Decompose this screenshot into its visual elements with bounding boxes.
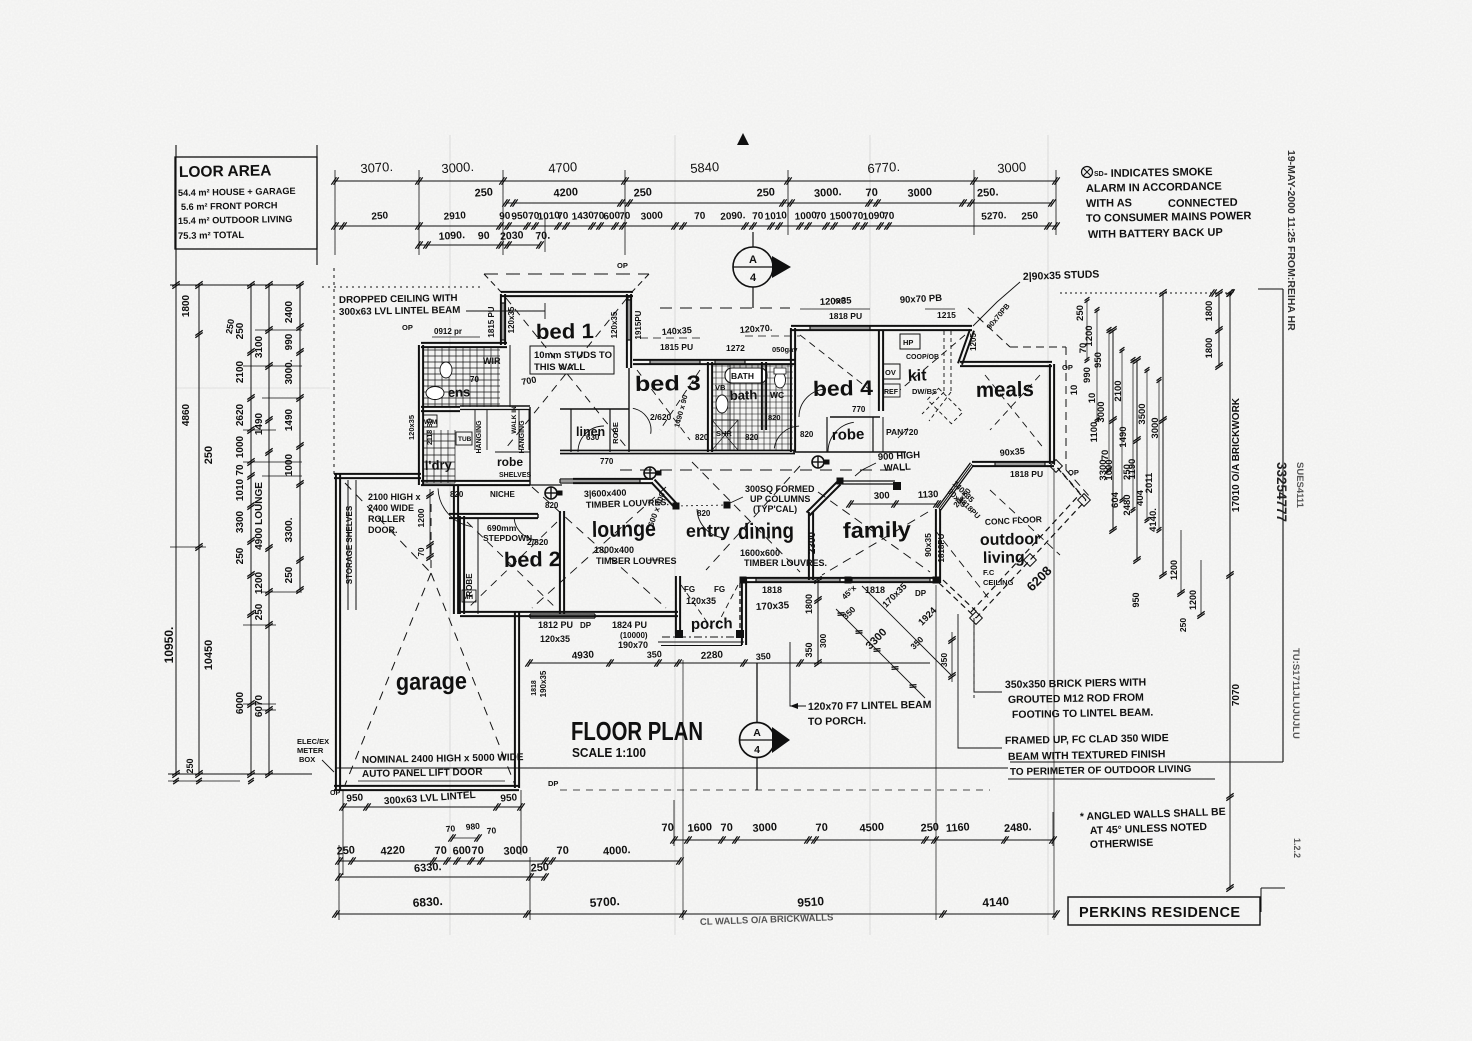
svg-text:WC: WC xyxy=(770,390,784,400)
pan closet xyxy=(872,417,874,452)
svg-text:1490: 1490 xyxy=(1118,426,1129,447)
svg-text:1200: 1200 xyxy=(416,508,426,527)
svg-text:PERKINS RESIDENCE: PERKINS RESIDENCE xyxy=(1079,905,1241,921)
north arrow xyxy=(737,133,749,145)
svg-text:meals: meals xyxy=(976,378,1034,402)
svg-text:600: 600 xyxy=(452,844,471,857)
svg-text:bed 4: bed 4 xyxy=(813,377,874,401)
svg-text:4900 LOUNGE: 4900 LOUNGE xyxy=(254,482,265,550)
svg-text:F.C: F.C xyxy=(983,568,995,577)
svg-text:5700.: 5700. xyxy=(589,894,620,910)
svg-text:54.4 m² HOUSE + GARAGE: 54.4 m² HOUSE + GARAGE xyxy=(178,186,296,198)
svg-text:1090.: 1090. xyxy=(438,229,465,243)
svg-text:250: 250 xyxy=(1178,618,1188,632)
svg-text:1200: 1200 xyxy=(1169,560,1179,580)
svg-text:OP: OP xyxy=(617,261,628,270)
svg-text:820: 820 xyxy=(800,430,814,439)
svg-text:BOX: BOX xyxy=(299,755,315,764)
garage bottom wall xyxy=(334,785,519,787)
svg-text:ROBE: ROBE xyxy=(465,573,474,597)
svg-text:UP COLUMNS: UP COLUMNS xyxy=(750,494,810,504)
laundry walls xyxy=(418,345,420,485)
svg-text:350: 350 xyxy=(804,642,814,657)
svg-text:70: 70 xyxy=(557,211,569,223)
svg-text:1915PU: 1915PU xyxy=(634,310,643,339)
svg-text:70: 70 xyxy=(815,822,828,835)
dining-family divider xyxy=(808,512,810,580)
garage left wall xyxy=(335,474,337,790)
svg-text:1500: 1500 xyxy=(829,210,852,223)
svg-text:300x63 LVL LINTEL BEAM: 300x63 LVL LINTEL BEAM xyxy=(339,305,461,318)
svg-text:70: 70 xyxy=(434,845,447,858)
bed4 walls xyxy=(790,328,792,452)
smoke alarm note xyxy=(1082,167,1093,178)
svg-text:1818 PU: 1818 PU xyxy=(829,311,862,321)
bottom dim row E xyxy=(336,913,1056,915)
svg-text:950: 950 xyxy=(500,792,518,804)
bed2 robe strip xyxy=(477,518,479,614)
svg-text:120x70 F7 LINTEL BEAM: 120x70 F7 LINTEL BEAM xyxy=(808,699,932,713)
svg-text:120x35: 120x35 xyxy=(540,634,570,644)
svg-text:70: 70 xyxy=(752,211,764,223)
svg-text:1160: 1160 xyxy=(945,821,970,835)
svg-text:250: 250 xyxy=(284,566,295,583)
svg-text:FG: FG xyxy=(714,585,725,594)
svg-text:dining: dining xyxy=(738,518,794,544)
svg-text:250: 250 xyxy=(185,758,195,773)
svg-text:2/620: 2/620 xyxy=(650,412,672,422)
svg-text:17010 O/A BRICKWORK: 17010 O/A BRICKWORK xyxy=(1231,397,1242,512)
ens walls xyxy=(421,342,507,344)
svg-text:4500: 4500 xyxy=(859,821,884,835)
bed4 door xyxy=(799,389,826,417)
svg-text:bed 1: bed 1 xyxy=(536,320,595,344)
svg-text:4700: 4700 xyxy=(548,159,578,176)
shower xyxy=(712,420,738,450)
svg-text:70: 70 xyxy=(619,211,631,223)
svg-text:BATH: BATH xyxy=(731,371,754,381)
svg-text:90x35: 90x35 xyxy=(923,533,933,557)
svg-text:1200: 1200 xyxy=(1188,590,1198,610)
svg-text:300: 300 xyxy=(818,634,828,648)
svg-text:OP: OP xyxy=(1062,363,1073,372)
svg-text:5840: 5840 xyxy=(690,159,720,176)
svg-text:300SQ FORMED: 300SQ FORMED xyxy=(745,484,815,494)
svg-text:190x35: 190x35 xyxy=(539,670,548,697)
svg-text:250: 250 xyxy=(474,186,493,199)
hall bottom wall xyxy=(560,449,795,451)
garage lintel dim row xyxy=(343,806,521,808)
svg-text:90: 90 xyxy=(478,230,491,243)
meals walls xyxy=(960,361,1052,363)
svg-text:70: 70 xyxy=(865,187,878,200)
svg-text:6000: 6000 xyxy=(235,691,246,714)
outdoor living piers xyxy=(970,612,983,625)
bed2 walls xyxy=(449,513,538,515)
north wall windows row xyxy=(633,359,795,361)
svg-text:DROPPED CEILING WITH: DROPPED CEILING WITH xyxy=(339,293,458,306)
svg-text:DW/BS: DW/BS xyxy=(912,387,937,396)
svg-text:FOOTING TO LINTEL BEAM.: FOOTING TO LINTEL BEAM. xyxy=(1012,707,1154,721)
svg-text:170x35: 170x35 xyxy=(756,600,790,613)
svg-text:120x35: 120x35 xyxy=(507,306,516,333)
svg-text:TUB: TUB xyxy=(458,436,472,443)
sheet border right xyxy=(1282,289,1284,762)
svg-text:1490: 1490 xyxy=(254,412,265,435)
svg-text:STEPDOWN: STEPDOWN xyxy=(483,533,532,543)
lounge ceiling dash xyxy=(532,487,666,608)
faint scan construction lines xyxy=(449,135,451,935)
svg-text:1130: 1130 xyxy=(918,489,939,501)
svg-text:SHELVES: SHELVES xyxy=(499,472,531,479)
svg-text:OV: OV xyxy=(885,368,896,377)
svg-text:2280: 2280 xyxy=(700,649,723,662)
top dimension chain row4 xyxy=(419,244,540,246)
svg-text:250: 250 xyxy=(203,446,215,464)
house front wall at lounge xyxy=(460,611,678,613)
svg-text:820: 820 xyxy=(745,433,759,442)
svg-text:3000.: 3000. xyxy=(284,359,295,384)
svg-text:250: 250 xyxy=(254,603,265,620)
linen closet xyxy=(560,408,629,410)
svg-text:250: 250 xyxy=(756,186,775,199)
svg-text:950: 950 xyxy=(346,792,364,804)
robe shelves hall xyxy=(495,451,530,453)
extension lines bottom xyxy=(338,845,340,920)
svg-text:outdoor: outdoor xyxy=(980,531,1041,549)
svg-text:bed 2: bed 2 xyxy=(504,548,561,572)
svg-text:820: 820 xyxy=(450,490,464,499)
svg-text:3000: 3000 xyxy=(1096,401,1107,422)
svg-text:90: 90 xyxy=(499,211,511,223)
bed3 bed1 hall dashes xyxy=(637,370,690,440)
svg-text:690mm: 690mm xyxy=(487,523,517,533)
bed1 walls xyxy=(501,291,633,293)
entry columns xyxy=(673,503,680,510)
svg-text:10: 10 xyxy=(1087,393,1098,404)
svg-text:900 HIGH: 900 HIGH xyxy=(878,450,921,463)
niche xyxy=(456,484,562,486)
svg-text:1818: 1818 xyxy=(531,680,538,696)
svg-text:1000: 1000 xyxy=(284,453,295,476)
laundry fixtures xyxy=(423,433,455,435)
svg-text:- INDICATES SMOKE: - INDICATES SMOKE xyxy=(1104,166,1213,180)
right dims 3300/2480/4140 xyxy=(1112,330,1114,530)
svg-text:350x350 BRICK PIERS WITH: 350x350 BRICK PIERS WITH xyxy=(1005,677,1146,691)
svg-text:OP: OP xyxy=(835,296,846,305)
svg-text:1600x600: 1600x600 xyxy=(740,548,780,558)
svg-text:living: living xyxy=(983,549,1025,567)
svg-text:WIR: WIR xyxy=(483,356,501,366)
svg-text:250: 250 xyxy=(235,322,246,339)
bath xyxy=(712,365,793,367)
top dimension chain row2 xyxy=(506,202,1052,204)
porch diag dashes xyxy=(681,585,712,629)
svg-text:(TYP'CAL): (TYP'CAL) xyxy=(753,504,797,514)
svg-text:2030: 2030 xyxy=(500,229,524,243)
svg-text:1272: 1272 xyxy=(726,343,745,353)
svg-text:3070.: 3070. xyxy=(360,159,394,176)
svg-text:B: B xyxy=(627,293,633,302)
svg-text:5.6 m² FRONT PORCH: 5.6 m² FRONT PORCH xyxy=(181,200,278,212)
svg-text:CONNECTED: CONNECTED xyxy=(1168,197,1238,210)
svg-text:10450: 10450 xyxy=(203,640,215,671)
svg-text:1800x400: 1800x400 xyxy=(594,545,634,555)
svg-text:DP: DP xyxy=(548,779,558,788)
bed2 ceiling dash xyxy=(467,522,557,609)
svg-text:lounge: lounge xyxy=(592,516,656,542)
svg-text:4: 4 xyxy=(754,744,760,756)
svg-text:5270.: 5270. xyxy=(981,210,1007,223)
svg-text:COOP/OB: COOP/OB xyxy=(906,354,939,361)
svg-text:70: 70 xyxy=(720,822,733,835)
svg-text:1824 PU: 1824 PU xyxy=(612,620,647,630)
svg-text:1818 PU: 1818 PU xyxy=(1010,469,1043,479)
svg-text:3500: 3500 xyxy=(1137,403,1148,424)
svg-text:A: A xyxy=(753,727,761,739)
svg-text:FG: FG xyxy=(684,585,695,594)
kitchen fixtures xyxy=(900,334,920,349)
svg-text:TIMBER LOUVRES: TIMBER LOUVRES xyxy=(596,556,677,566)
svg-text:l'dry: l'dry xyxy=(425,457,453,473)
svg-text:A: A xyxy=(749,254,757,266)
svg-text:METER: METER xyxy=(297,746,324,755)
svg-text:250: 250 xyxy=(530,861,549,874)
dim under family xyxy=(817,580,819,663)
svg-text:SCALE 1:100: SCALE 1:100 xyxy=(572,746,646,760)
svg-text:TO PORCH.: TO PORCH. xyxy=(808,715,866,728)
smoke detector symbols xyxy=(812,456,824,468)
svg-text:2090.: 2090. xyxy=(720,210,746,223)
svg-text:ROBE: ROBE xyxy=(611,422,620,444)
svg-text:WALL: WALL xyxy=(884,462,912,474)
frame line lower right xyxy=(1010,761,1283,763)
svg-text:770: 770 xyxy=(852,405,866,414)
svg-text:15.4 m² OUTDOOR LIVING: 15.4 m² OUTDOOR LIVING xyxy=(178,214,293,226)
svg-text:820: 820 xyxy=(768,413,781,422)
svg-text:6330.: 6330. xyxy=(414,861,442,875)
eaves dashed outline xyxy=(484,273,649,275)
svg-text:4000.: 4000. xyxy=(603,844,631,858)
hall door arcs xyxy=(578,426,604,452)
outdoor living dash diagonals xyxy=(990,490,1060,555)
svg-text:2400: 2400 xyxy=(284,300,295,323)
svg-text:2300: 2300 xyxy=(807,531,818,554)
svg-text:980: 980 xyxy=(465,821,480,832)
svg-text:LOOR AREA: LOOR AREA xyxy=(179,162,272,181)
section marker A4 top xyxy=(733,247,773,287)
svg-text:70: 70 xyxy=(883,211,895,223)
bottom dim row B xyxy=(674,839,1053,841)
floor area schedule box xyxy=(175,157,317,249)
garage right wall xyxy=(514,612,516,788)
svg-text:1.2.2: 1.2.2 xyxy=(1292,838,1302,858)
svg-text:FLOOR PLAN: FLOOR PLAN xyxy=(571,716,703,746)
svg-text:3|600x400: 3|600x400 xyxy=(584,488,627,499)
bottom dim row C xyxy=(339,860,680,862)
svg-text:4220: 4220 xyxy=(380,844,405,858)
svg-text:GROUTED M12 ROD FROM: GROUTED M12 ROD FROM xyxy=(1008,692,1144,706)
svg-text:1205: 1205 xyxy=(969,333,978,351)
svg-text:7070: 7070 xyxy=(1231,683,1242,706)
svg-text:4860: 4860 xyxy=(181,403,192,426)
svg-text:3000.: 3000. xyxy=(441,159,475,176)
bed4 bottom wall xyxy=(793,451,906,453)
svg-text:garage: garage xyxy=(396,668,467,696)
svg-text:1818: 1818 xyxy=(865,585,885,595)
left dimension block xyxy=(170,284,302,286)
svg-text:THIS WALL: THIS WALL xyxy=(534,362,585,373)
svg-text:990: 990 xyxy=(284,333,295,350)
outdoor living top wall xyxy=(972,461,1054,463)
svg-text:3100: 3100 xyxy=(254,335,265,358)
svg-text:70: 70 xyxy=(815,211,827,223)
svg-text:0912 pr: 0912 pr xyxy=(434,327,462,336)
meals ceiling dash xyxy=(985,375,1045,450)
svg-text:WITH AS: WITH AS xyxy=(1086,197,1132,210)
svg-text:190x70: 190x70 xyxy=(618,640,648,650)
svg-text:70: 70 xyxy=(445,823,456,834)
svg-text:820: 820 xyxy=(545,501,559,510)
svg-text:CEILING: CEILING xyxy=(983,578,1014,587)
svg-text:70: 70 xyxy=(694,211,706,223)
bed1 studs note box xyxy=(530,346,614,374)
svg-text:9510: 9510 xyxy=(797,894,825,910)
svg-text:250: 250 xyxy=(235,547,246,564)
reference line under title xyxy=(336,767,1008,769)
svg-text:1000: 1000 xyxy=(235,435,246,458)
svg-text:1818: 1818 xyxy=(762,585,782,595)
svg-text:2100: 2100 xyxy=(235,360,246,383)
svg-text:SHR: SHR xyxy=(716,429,732,438)
svg-text:kit: kit xyxy=(908,367,928,385)
svg-text:TU:S1711JLUJUJLU: TU:S1711JLUJUJLU xyxy=(1290,648,1301,739)
porch xyxy=(675,576,677,634)
svg-text:HP: HP xyxy=(903,338,913,347)
svg-text:3000: 3000 xyxy=(640,210,663,223)
svg-text:75.3 m² TOTAL: 75.3 m² TOTAL xyxy=(178,230,245,242)
svg-text:70: 70 xyxy=(235,464,246,476)
top dimension chain row1 xyxy=(335,180,1056,182)
svg-text:NICHE: NICHE xyxy=(490,490,516,499)
lounge walls xyxy=(573,478,653,480)
svg-text:120x35: 120x35 xyxy=(610,311,619,338)
svg-text:6770.: 6770. xyxy=(867,159,901,176)
svg-text:70.: 70. xyxy=(535,230,550,243)
svg-text:6830.: 6830. xyxy=(412,894,443,910)
svg-text:70: 70 xyxy=(661,822,674,835)
outdoor living beams dashed xyxy=(939,583,976,618)
svg-text:(10000): (10000) xyxy=(620,631,648,640)
top dimension chain row3 xyxy=(335,225,1056,227)
svg-text:HANGING: HANGING xyxy=(476,420,483,454)
svg-text:120x35: 120x35 xyxy=(407,415,416,440)
svg-text:250: 250 xyxy=(371,210,389,222)
svg-text:4200: 4200 xyxy=(553,186,578,200)
garage hall dim 1200 xyxy=(429,489,431,560)
garage ceiling dashes xyxy=(430,504,432,573)
svg-text:630: 630 xyxy=(586,433,600,442)
svg-text:robe: robe xyxy=(832,426,865,444)
svg-text:4140: 4140 xyxy=(982,894,1010,910)
robe bed4 xyxy=(830,416,880,418)
svg-text:3300.: 3300. xyxy=(284,517,295,542)
svg-text:820: 820 xyxy=(695,433,709,442)
svg-text:1800: 1800 xyxy=(1204,338,1214,359)
svg-text:350: 350 xyxy=(939,653,949,667)
svg-text:250: 250 xyxy=(633,186,652,199)
dining ceiling dash xyxy=(692,462,800,572)
svg-text:ALARM IN ACCORDANCE: ALARM IN ACCORDANCE xyxy=(1086,181,1222,195)
svg-text:1200: 1200 xyxy=(254,571,265,594)
svg-text:3000: 3000 xyxy=(752,821,777,835)
svg-text:1800: 1800 xyxy=(181,294,192,317)
svg-text:SUES4111: SUES4111 xyxy=(1294,462,1305,509)
family walls xyxy=(809,484,840,515)
svg-text:OP: OP xyxy=(402,323,413,332)
angled window wall meals-family xyxy=(937,463,970,508)
right dim top line xyxy=(1060,292,1230,294)
front wall dining-family xyxy=(744,577,938,579)
svg-text:OP: OP xyxy=(1068,468,1079,477)
svg-text:6070: 6070 xyxy=(254,694,265,717)
svg-text:990: 990 xyxy=(1082,367,1093,383)
storage shelves strip xyxy=(347,480,349,610)
right 1800 dims xyxy=(1218,293,1220,366)
svg-text:300: 300 xyxy=(874,490,890,502)
bottom dim row D xyxy=(339,876,545,878)
section marker A4 bottom xyxy=(740,723,775,758)
svg-text:820: 820 xyxy=(697,509,711,518)
svg-text:2480.: 2480. xyxy=(1004,821,1032,835)
svg-text:STORAGE SHELVES: STORAGE SHELVES xyxy=(345,505,354,584)
svg-text:4: 4 xyxy=(750,272,757,284)
svg-text:250: 250 xyxy=(1122,464,1133,480)
right O/A dim line xyxy=(1229,293,1231,797)
svg-text:604: 604 xyxy=(1110,491,1121,508)
kitchen bench dashed xyxy=(950,331,952,392)
svg-text:1815 PU: 1815 PU xyxy=(487,306,496,337)
svg-text:1600: 1600 xyxy=(687,821,712,835)
svg-text:1100: 1100 xyxy=(1089,422,1100,443)
family ceiling dash xyxy=(818,492,930,572)
svg-text:2910: 2910 xyxy=(443,210,466,223)
svg-text:ELEC/EX: ELEC/EX xyxy=(297,737,329,746)
svg-text:10mm STUDS TO: 10mm STUDS TO xyxy=(534,350,612,361)
svg-text:2400 WIDE: 2400 WIDE xyxy=(368,503,414,513)
svg-text:70: 70 xyxy=(486,825,497,836)
vert 350 dim near outdoor xyxy=(951,632,953,682)
svg-text:19-MAY-2000 11:25 FROM:REIHA H: 19-MAY-2000 11:25 FROM:REIHA HR xyxy=(1285,150,1297,331)
svg-text:70: 70 xyxy=(470,375,479,384)
svg-text:WALK IN: WALK IN xyxy=(511,406,518,434)
svg-text:DP: DP xyxy=(580,621,592,630)
svg-text:404: 404 xyxy=(1135,489,1146,506)
garage top wall xyxy=(334,473,421,475)
svg-text:2620: 2620 xyxy=(235,403,246,426)
hall-garage wall xyxy=(453,485,455,614)
svg-text:robe: robe xyxy=(497,455,523,469)
svg-text:1010: 1010 xyxy=(235,478,246,501)
svg-text:porch: porch xyxy=(691,615,733,633)
svg-text:2100 HIGH x: 2100 HIGH x xyxy=(368,492,421,502)
kitchen wall xyxy=(878,330,880,411)
svg-text:VB: VB xyxy=(715,383,726,392)
svg-text:3300: 3300 xyxy=(235,510,246,533)
svg-text:3000: 3000 xyxy=(907,186,932,200)
svg-text:1430: 1430 xyxy=(571,210,594,223)
svg-text:770: 770 xyxy=(600,457,614,466)
